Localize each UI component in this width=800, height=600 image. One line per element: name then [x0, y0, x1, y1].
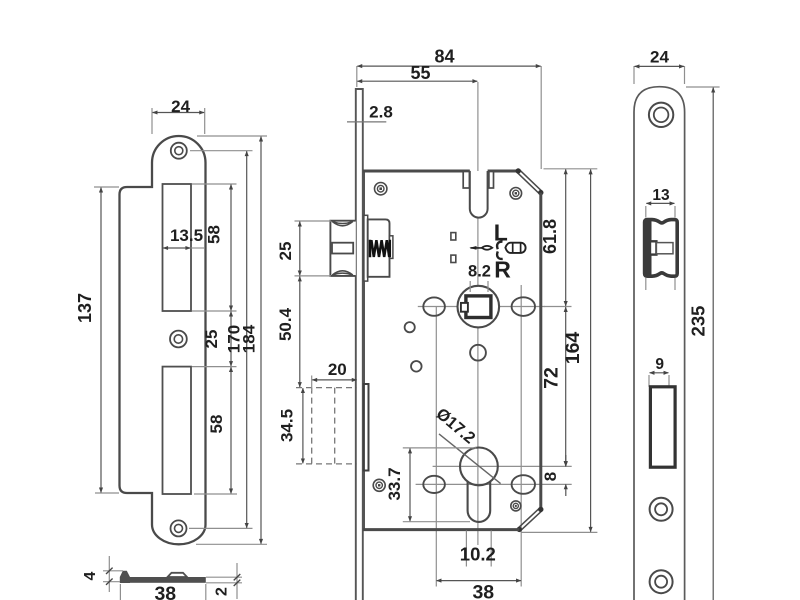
- svg-text:R: R: [494, 257, 511, 283]
- dimension 55 (backset): [357, 80, 477, 82]
- dimension 34.5 (deadbolt height): [302, 388, 304, 463]
- svg-text:50.4: 50.4: [276, 307, 295, 341]
- svg-text:10.2: 10.2: [460, 544, 496, 565]
- cylinder row horizontal centerline: [416, 483, 572, 485]
- case top chamfer (double line with end dots): [519, 170, 542, 192]
- svg-text:20: 20: [328, 360, 347, 379]
- dimension 24 (faceplate width): [633, 66, 635, 84]
- svg-text:38: 38: [472, 582, 494, 600]
- strike plate deadbolt cutout: [163, 367, 192, 494]
- strike plate section lance bump: [168, 573, 188, 577]
- dimension 164 (case height): [590, 170, 592, 532]
- dimension 13 (latch slot width): [645, 206, 647, 218]
- latch head middle rib: [332, 243, 353, 254]
- svg-text:58: 58: [207, 415, 226, 434]
- dimension 58 lower: [230, 367, 232, 493]
- svg-text:137: 137: [75, 293, 95, 323]
- cylinder row left oval hole: [423, 476, 445, 493]
- latch spring: [370, 240, 390, 257]
- svg-text:25: 25: [202, 330, 221, 349]
- latch housing: [368, 219, 390, 276]
- latch head top bevel lens: [332, 222, 353, 226]
- svg-text:84: 84: [434, 47, 454, 67]
- svg-text:24: 24: [650, 48, 669, 67]
- svg-text:184: 184: [240, 324, 259, 353]
- right extension line spindle center: [544, 306, 572, 308]
- svg-text:61.8: 61.8: [540, 219, 560, 254]
- svg-text:72: 72: [541, 367, 563, 389]
- dimension 10.2 (keyway width): [465, 531, 467, 567]
- svg-text:8.2: 8.2: [468, 263, 491, 281]
- dimension 61.8 (top to spindle): [565, 169, 567, 306]
- svg-text:2.8: 2.8: [369, 103, 393, 122]
- dimension 33.7 (cylinder profile height): [403, 447, 477, 449]
- deadbolt slot front view: [650, 387, 675, 467]
- svg-text:34.5: 34.5: [278, 409, 297, 442]
- strike plate bottom screw hole: [171, 520, 187, 536]
- dimension 9 (deadbolt slot width): [648, 375, 650, 387]
- latch slot edges: [645, 278, 647, 290]
- dimension 20 (deadbolt throw): [311, 376, 313, 392]
- case top edge: [363, 170, 470, 173]
- faceplate top screw hole: [649, 103, 673, 127]
- dimension 2.8 (faceplate thickness) leader: [347, 121, 386, 123]
- top edge left tab: [463, 172, 469, 189]
- svg-text:235: 235: [688, 306, 709, 337]
- dimension 84 (case depth): [356, 66, 358, 87]
- handing pin lower hook: [497, 251, 503, 259]
- right extension line case bottom: [521, 531, 598, 533]
- euro cylinder keyway: [468, 481, 491, 522]
- strike plate top screw hole: [171, 143, 187, 159]
- left oval centerline vertical: [435, 307, 437, 587]
- dimension 8 (cylinder to oval): [565, 455, 567, 466]
- case screw top-right: [510, 188, 522, 200]
- circle below spindle: [470, 345, 486, 361]
- svg-text:8: 8: [541, 472, 560, 481]
- spindle row right oval hole: [512, 297, 535, 316]
- dimension 137 (wide part height): [94, 186, 119, 188]
- case bottom chamfer (double line with end dots): [521, 511, 543, 531]
- latch bolt inner small rect: [650, 241, 656, 254]
- latch head (left of faceplate): [330, 221, 355, 276]
- svg-text:38: 38: [154, 583, 176, 600]
- top edge right tab: [489, 172, 494, 189]
- small hole lower: [411, 361, 422, 372]
- case screw top-left: [375, 183, 387, 195]
- case screw bottom-right: [511, 501, 521, 511]
- dimension 235 (faceplate height): [686, 86, 720, 88]
- strike plate outline: [120, 136, 206, 544]
- svg-text:58: 58: [205, 225, 224, 244]
- faceplate front view outline: [634, 87, 685, 600]
- latch bolt inner wide rect: [656, 243, 673, 254]
- strike plate middle screw hole: [170, 331, 187, 348]
- handing pin left arrow: [471, 247, 493, 249]
- spindle square keyway notch: [461, 303, 468, 312]
- svg-text:24: 24: [171, 97, 190, 116]
- faceplate middle screw hole: [650, 498, 673, 521]
- dimension 2 (plate thickness): [206, 576, 242, 578]
- svg-text:4: 4: [82, 571, 99, 580]
- svg-text:164: 164: [562, 332, 584, 365]
- strike plate latch cutout: [163, 184, 192, 311]
- case bottom edge: [363, 528, 519, 531]
- spindle row left oval hole: [423, 297, 445, 315]
- latch bolt front view (spool shape): [645, 220, 678, 277]
- deadbolt retracted (behind faceplate): [364, 384, 369, 471]
- dimension 25 (between cutouts): [230, 312, 232, 366]
- dimension 50.4 (latch to deadbolt): [299, 277, 301, 388]
- spindle hub circle: [458, 286, 500, 328]
- handle follower U-slot: [470, 171, 488, 218]
- tiny slot lower: [451, 255, 456, 262]
- strike plate section bar: [121, 577, 206, 583]
- handing pin body: [505, 243, 525, 253]
- dimension 58 upper: [192, 183, 237, 185]
- cylinder row right oval hole: [512, 475, 535, 494]
- vertical centerline through spindle: [477, 82, 479, 545]
- svg-text:13.5: 13.5: [170, 226, 203, 245]
- dimension 72 (spindle to cylinder): [565, 307, 567, 466]
- strike plate section left lip: [120, 571, 130, 583]
- euro cylinder circle: [460, 448, 498, 486]
- handing pin lens: [482, 246, 493, 250]
- spindle row horizontal centerline: [418, 306, 545, 308]
- handing pin upper hook: [497, 242, 502, 250]
- dimension 25 (latch height): [295, 220, 332, 222]
- dimension 38 (cylinder fixing centers): [437, 580, 521, 582]
- svg-text:55: 55: [410, 63, 430, 83]
- svg-text:13: 13: [652, 187, 670, 204]
- tiny slot upper: [451, 233, 456, 240]
- faceplate bottom screw hole: [650, 570, 673, 593]
- latch tail plate behind faceplate: [364, 215, 368, 281]
- svg-text:2: 2: [214, 587, 231, 596]
- dimension Ø17.2 (cylinder diameter) leader: [439, 434, 501, 484]
- cylinder center horizontal extension: [433, 465, 572, 467]
- right extension line case top: [544, 168, 598, 170]
- deadbolt thrown dashed outline: [296, 387, 357, 389]
- dimension 24 (strike plate width): [151, 108, 153, 134]
- svg-text:9: 9: [655, 356, 664, 373]
- svg-text:33.7: 33.7: [385, 467, 404, 500]
- right oval centerline vertical: [520, 285, 522, 587]
- dimension 8.2 (spindle square): [469, 281, 471, 292]
- svg-text:25: 25: [276, 242, 295, 261]
- case right edge: [539, 193, 542, 510]
- small hole upper: [405, 322, 415, 332]
- case screw bottom-left: [373, 479, 385, 491]
- case left edge: [363, 171, 365, 530]
- faceplate (side view): [356, 89, 363, 600]
- dimension 38 (section width): [119, 584, 121, 600]
- latch head bottom bevel lens: [332, 271, 353, 275]
- latch housing right notch: [390, 236, 393, 259]
- dimension 184 (overall strike plate height): [197, 135, 267, 137]
- dimension 4 (lip height): [103, 570, 123, 572]
- spindle square hole: [466, 296, 491, 318]
- dimension 170 (screw hole centers): [190, 150, 253, 152]
